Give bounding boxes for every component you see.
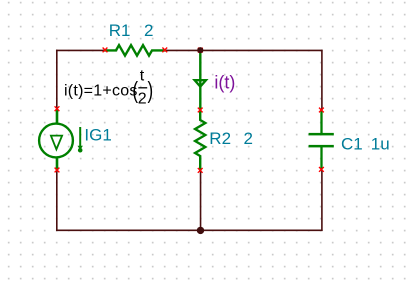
terminal cross C1 bottom pin [319, 167, 324, 172]
wire right vertical (top rail down to C1 top terminal) [321, 50, 323, 110]
IG1 label [84, 126, 111, 145]
terminal cross at top junction [198, 48, 203, 53]
svg-text:R2: R2 [209, 129, 231, 148]
svg-text:IG1: IG1 [84, 126, 111, 145]
svg-text:t: t [140, 67, 145, 84]
terminal cross C1 top pin [319, 108, 324, 113]
terminal cross IG1 top pin [55, 106, 60, 111]
terminal cross R2 bottom pin [198, 168, 203, 173]
svg-text:2: 2 [244, 129, 253, 148]
wire top-left horizontal (node from IG1 to R1) [56, 49, 105, 51]
resistor R1 [105, 45, 165, 55]
capacitor C1 label [341, 135, 390, 154]
IG1 current direction arrow [78, 127, 83, 153]
terminal cross R1 left pin [103, 48, 108, 53]
wire left vertical (IG1 bottom terminal down to bottom rail) [56, 170, 58, 231]
capacitor C1 [309, 110, 334, 170]
junction node dot (bottom, at x=200 y=230) [197, 227, 204, 234]
resistor R2 label [209, 129, 253, 148]
svg-text:R1: R1 [109, 21, 131, 40]
junction node dot (top, at x=200 y=50) [197, 47, 203, 53]
svg-text:i(t)=1+cos: i(t)=1+cos [64, 82, 138, 99]
svg-text:1u: 1u [371, 135, 390, 154]
formula text i(t)=1+cos(t/2) [64, 67, 153, 107]
svg-text:i(t): i(t) [214, 73, 235, 93]
svg-text:2: 2 [138, 91, 147, 108]
current source IG1 [39, 109, 73, 170]
wire bottom horizontal rail [56, 229, 323, 231]
terminal cross R1 right pin [162, 48, 167, 53]
terminal cross R2 top pin [198, 108, 203, 113]
svg-text:2: 2 [144, 21, 153, 40]
svg-text:C1: C1 [341, 135, 363, 154]
wire middle vertical (R2 bottom to bottom rail) [200, 170, 202, 230]
resistor R1 label [109, 21, 154, 40]
current arrow component i(t) on middle branch [195, 50, 206, 110]
resistor R2 [195, 110, 205, 170]
wire top-right horizontal (R1 to junction to C1) [165, 49, 323, 51]
terminal cross IG1 bottom pin [55, 168, 60, 173]
wire left vertical (top corner down to IG1 top terminal) [56, 50, 58, 109]
svg-text:): ) [148, 79, 154, 104]
wire right vertical (C1 bottom terminal to bottom rail) [321, 170, 323, 231]
i(t) arrow label [214, 73, 235, 93]
